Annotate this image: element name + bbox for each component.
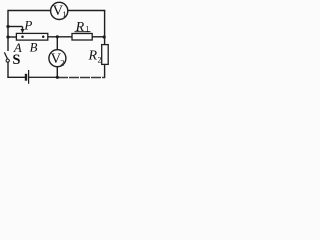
wire left edge below switch [7, 62, 9, 78]
wire slider feed horizontal [8, 26, 23, 28]
rheostat box (slide rheostat A-B) [16, 33, 47, 40]
wire bottom-left segment [7, 76, 25, 78]
rheostat right contact dot [42, 36, 45, 39]
node junction on left edge (slider feed) [6, 25, 9, 28]
wire top-right segment [67, 10, 105, 12]
svg-text:1: 1 [85, 25, 89, 34]
svg-text:2: 2 [60, 58, 64, 68]
wire middle from left edge to rheostat [8, 36, 17, 38]
wire V2 bottom lead [56, 67, 58, 78]
node junction on left edge (middle wire) [6, 35, 9, 38]
svg-text:2: 2 [98, 56, 102, 65]
label R1 underline [75, 31, 91, 33]
rheostat slider contact dot [21, 36, 24, 39]
voltmeter V2 [49, 50, 66, 68]
resistor R2 box [102, 45, 109, 65]
wire top-left segment [8, 10, 52, 12]
wire rheostat to R1 [48, 36, 72, 38]
svg-text:R: R [75, 20, 85, 35]
svg-text:R: R [88, 48, 98, 63]
wire bottom-middle segment [29, 76, 58, 78]
wire slider feed vertical stem [22, 27, 24, 31]
wire bottom-right segment [58, 77, 105, 79]
wire V2 top lead [56, 37, 58, 50]
svg-text:S: S [12, 52, 20, 68]
svg-text:1: 1 [62, 9, 66, 19]
battery [26, 70, 29, 84]
resistor R1 box [72, 34, 92, 41]
wire right edge upper [104, 10, 106, 45]
wire left edge upper [7, 10, 9, 51]
svg-text:B: B [30, 41, 38, 55]
svg-text:P: P [23, 18, 32, 33]
node junction middle wire to V2 [56, 35, 59, 38]
voltmeter V1 [51, 2, 68, 19]
node junction right edge [103, 35, 106, 38]
node junction bottom wire to V2 [56, 76, 59, 79]
switch S [4, 52, 9, 62]
slider arrowhead P [21, 29, 25, 33]
wire right edge lower [104, 64, 106, 78]
wire R1 to right edge [92, 36, 105, 38]
